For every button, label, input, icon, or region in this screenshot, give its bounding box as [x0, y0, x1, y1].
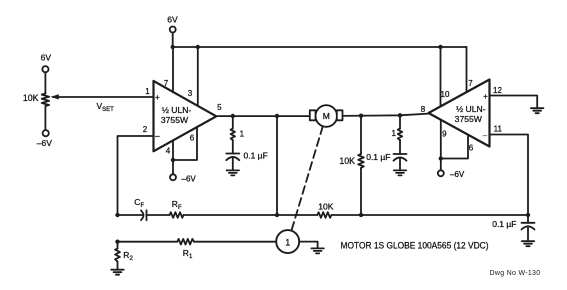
wire U1 output pin5 to motor	[215, 115, 310, 117]
capacitor 0.1uF left damper	[226, 140, 239, 170]
resistor 1 ohm left damper	[231, 116, 235, 140]
resistor 10K bottom	[317, 212, 331, 218]
svg-text:MOTOR 1S GLOBE 100A565 (12 VDC: MOTOR 1S GLOBE 100A565 (12 VDC)	[341, 241, 489, 251]
motor M1	[310, 105, 343, 127]
wire 10K bottom to pin11 drop	[332, 214, 529, 216]
wire 6V terminal to top rail	[172, 33, 174, 48]
wire pin2 of U1 to feedback node	[118, 136, 154, 215]
svg-text:6: 6	[469, 144, 474, 153]
node +6V top supply terminal	[170, 27, 176, 33]
wire R1 to pot P1	[194, 241, 276, 243]
wire pot P1 to ground	[299, 242, 317, 248]
wire pot top lead	[44, 72, 46, 93]
wire pin9 of U2 down	[440, 120, 442, 159]
svg-text:5: 5	[217, 103, 222, 112]
wire top 6V rail	[173, 46, 467, 48]
svg-text:1: 1	[392, 129, 397, 138]
svg-text:6V: 6V	[41, 53, 52, 63]
op-amp U1 half ULN-3755W	[154, 81, 217, 151]
op-amp U2 half ULN-3755W	[429, 80, 490, 147]
junction output/R damper left	[231, 114, 235, 118]
wire motor to U2 output pin8	[343, 114, 429, 116]
svg-text:–6V: –6V	[450, 170, 465, 179]
svg-text:7: 7	[164, 79, 169, 88]
svg-text:0.1 µF: 0.1 µF	[366, 152, 390, 162]
svg-text:3755W: 3755W	[455, 114, 483, 124]
svg-text:10K: 10K	[318, 202, 333, 212]
junction bus/center tap	[275, 213, 279, 217]
svg-text:Dwg No W-130: Dwg No W-130	[490, 270, 541, 277]
svg-text:2: 2	[143, 125, 148, 134]
capacitor CF	[141, 210, 170, 220]
wire pin12 of U2 to ground	[490, 96, 538, 108]
svg-text:CF: CF	[134, 197, 144, 209]
junction rail/pin3	[196, 45, 200, 49]
svg-text:8: 8	[421, 105, 426, 114]
svg-text:0.1 µF: 0.1 µF	[244, 151, 268, 161]
svg-text:½ ULN-: ½ ULN-	[162, 105, 192, 115]
wire VSET wiper to pin1 of U1	[53, 96, 154, 98]
svg-text:10: 10	[441, 90, 450, 99]
wire pin7 of U1 to rail	[172, 47, 174, 92]
svg-text:1: 1	[285, 237, 290, 247]
svg-text:6V: 6V	[167, 15, 178, 25]
svg-text:12: 12	[493, 86, 502, 95]
node -6V left terminal	[170, 174, 176, 180]
wire dashed mechanical coupling motor to pot	[291, 126, 322, 230]
junction bus/10K vertical	[359, 213, 363, 217]
svg-text:0.1 µF: 0.1 µF	[492, 219, 516, 229]
wire pin6 of U2 down	[441, 135, 468, 159]
wire pin6 of U1 down	[173, 127, 197, 160]
junction rail/6V	[171, 45, 175, 49]
svg-text:10K: 10K	[339, 156, 355, 166]
node +6V pot terminal	[42, 66, 48, 72]
svg-text:R1: R1	[183, 248, 193, 260]
junction motor wire / right damper	[398, 113, 402, 117]
svg-text:R2: R2	[123, 250, 133, 262]
svg-text:4: 4	[166, 147, 171, 156]
potentiometer 10K	[42, 94, 49, 107]
junction bus/pin2 node	[115, 213, 119, 217]
resistor RF	[170, 212, 184, 218]
wire junction to -6V terminal	[172, 160, 174, 174]
node -6V pot terminal	[43, 130, 49, 136]
junction pin4/pin6	[171, 158, 175, 162]
junction summing node/R1	[115, 240, 119, 244]
wire pot bottom lead	[44, 106, 46, 130]
wire pin4 of U1 down	[172, 140, 174, 160]
svg-text:6: 6	[190, 134, 195, 143]
svg-text:–6V: –6V	[37, 138, 52, 148]
wire RF to 10K bottom	[184, 214, 318, 216]
wire bottom bus left segment	[118, 214, 144, 216]
svg-text:+: +	[483, 92, 488, 101]
resistor R1	[177, 239, 194, 245]
svg-text:+: +	[155, 93, 160, 102]
svg-text:3755W: 3755W	[161, 115, 189, 125]
svg-text:7: 7	[468, 79, 473, 88]
ground pin12	[531, 108, 543, 113]
svg-text:–6V: –6V	[182, 174, 197, 183]
capacitor 0.1uF output right	[522, 215, 535, 241]
junction rail/pin10	[438, 45, 442, 49]
wire pin11 of U2 to bottom bus	[490, 135, 529, 216]
svg-text:M: M	[323, 111, 330, 121]
wire center feedback tap down to bus	[276, 116, 278, 215]
svg-text:–: –	[483, 131, 488, 140]
wire pin7 of U2 to rail	[466, 47, 468, 92]
junction pin9/pin6	[439, 156, 443, 160]
svg-text:½ ULN-: ½ ULN-	[456, 104, 486, 114]
wire pin10 of U2 to rail	[440, 47, 442, 106]
capacitor 0.1uF right damper	[394, 140, 407, 170]
svg-text:10K: 10K	[23, 93, 39, 103]
wire pin3 of U1 to rail	[197, 47, 199, 105]
resistor 10K vertical	[358, 116, 364, 215]
svg-text:9: 9	[442, 130, 447, 139]
ground right damper	[394, 170, 406, 175]
svg-text:3: 3	[188, 89, 193, 98]
potentiometer P1 dial	[276, 230, 299, 253]
ground left damper	[227, 170, 239, 175]
junction motor wire / 10K vertical	[359, 114, 363, 118]
ground R2	[111, 270, 123, 275]
svg-text:11: 11	[494, 124, 503, 133]
svg-text:RF: RF	[172, 199, 182, 211]
wiper arrowhead	[50, 94, 59, 99]
svg-text:1: 1	[240, 130, 245, 139]
ground pot P1	[311, 248, 323, 253]
wire junction to -6V right terminal	[440, 159, 442, 171]
resistor R2	[115, 242, 120, 270]
ground output right cap	[522, 241, 534, 246]
junction output/center feedback tap	[275, 114, 279, 118]
svg-text:1: 1	[145, 87, 150, 96]
junction bus/pin11	[526, 213, 530, 217]
resistor 1 ohm right damper	[398, 115, 402, 140]
svg-text:–: –	[155, 131, 160, 140]
node -6V right terminal	[438, 170, 444, 176]
svg-text:VSET: VSET	[97, 101, 115, 113]
wire R1 bus from summing node	[118, 241, 178, 243]
